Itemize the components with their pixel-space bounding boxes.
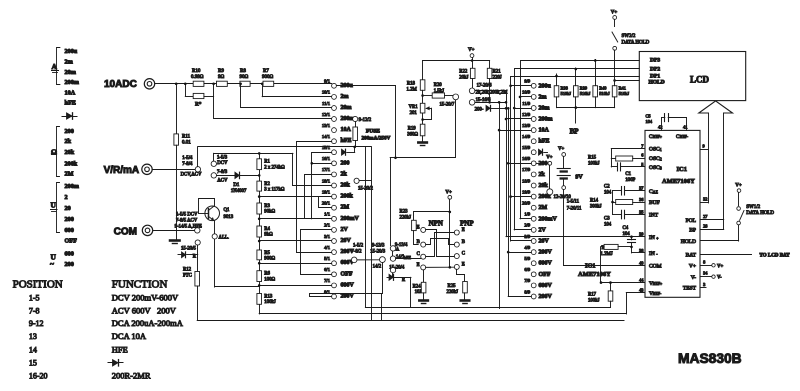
svg-text:2k: 2k [539,172,546,178]
svg-text:AME7106Y: AME7106Y [662,178,695,185]
svg-text:100kJ: 100kJ [588,298,600,303]
svg-text:9-13/3: 9-13/3 [372,243,385,248]
svg-text:R2: R2 [264,182,270,187]
svg-text:2M: 2M [341,205,350,211]
svg-text:R11: R11 [182,135,191,140]
svg-text:R12: R12 [183,268,192,273]
svg-text:13: 13 [29,332,37,341]
svg-text:10J: 10J [415,290,422,295]
svg-text:17/9: 17/9 [522,167,531,172]
svg-text:15-20/5: 15-20/5 [181,246,197,251]
svg-text:R5: R5 [264,251,270,256]
svg-text:42: 42 [658,125,662,130]
svg-text:10/1: 10/1 [322,90,331,95]
svg-text:8: 8 [703,260,706,265]
svg-text:14/2: 14/2 [373,265,382,270]
svg-text:1N4007: 1N4007 [231,189,247,194]
svg-text:OFF: OFF [539,272,551,278]
svg-text:20: 20 [65,205,71,212]
svg-text:200u: 200u [65,48,78,55]
svg-text:36: 36 [639,197,644,202]
svg-text:510kJ: 510kJ [561,91,572,96]
svg-text:R21: R21 [493,70,502,75]
svg-text:R13: R13 [264,294,273,299]
svg-text:4/1: 4/1 [324,245,331,250]
svg-text:200V: 200V [539,250,553,256]
svg-text:E: E [462,262,465,267]
svg-text:DATA HOLD: DATA HOLD [746,211,774,216]
svg-text:ALL.: ALL. [219,235,230,240]
svg-text:1/1: 1/1 [324,212,331,217]
svg-text:VR1: VR1 [409,105,419,110]
svg-text:PTC: PTC [183,274,192,279]
svg-text:BP: BP [689,228,696,234]
svg-text:100kJ: 100kJ [264,300,276,305]
svg-text:R3: R3 [264,204,270,209]
svg-text:9: 9 [703,144,706,149]
svg-text:2M: 2M [539,205,548,211]
svg-text:Ω: Ω [51,148,57,157]
svg-text:R9: R9 [218,69,224,74]
svg-text:100kJ: 100kJ [588,161,600,166]
svg-text:2k: 2k [65,138,72,145]
svg-text:2m: 2m [539,94,547,100]
svg-text:DATA HOLD: DATA HOLD [622,41,650,46]
svg-text:200m: 200m [65,79,80,86]
svg-text:104: 104 [623,232,631,237]
svg-text:2V: 2V [341,227,349,233]
svg-text:200: 200 [341,160,350,166]
svg-text:220kJ: 220kJ [447,290,459,295]
svg-text:1-5/4: 1-5/4 [182,156,193,161]
svg-text:1.2MJ: 1.2MJ [601,252,613,257]
svg-text:20V: 20V [341,238,352,244]
svg-text:+: + [656,235,659,240]
svg-text:20k: 20k [65,149,75,156]
svg-text:12/9: 12/9 [522,112,531,117]
svg-text:1.2M: 1.2M [407,88,418,93]
svg-text:9013: 9013 [224,215,234,220]
svg-text:14: 14 [29,345,37,354]
svg-text:200u: 200u [539,83,552,89]
svg-text:15/9: 15/9 [522,145,531,150]
svg-text:COM: COM [649,264,662,270]
svg-text:2 x 274kΩ: 2 x 274kΩ [264,165,285,170]
svg-text:15-20/7: 15-20/7 [440,102,456,107]
svg-text:200m: 200m [539,117,553,123]
svg-text:MAS830B: MAS830B [678,351,742,366]
svg-text:2m: 2m [65,58,74,65]
svg-text:NPN: NPN [429,220,443,228]
svg-text:20m: 20m [539,106,550,112]
svg-text:V/R/mA: V/R/mA [104,165,140,176]
svg-text:5/1: 5/1 [324,256,331,261]
svg-text:7-8: 7-8 [29,307,40,316]
svg-text:OFF: OFF [341,271,353,277]
svg-text:44: 44 [639,278,644,283]
svg-text:POSITION: POSITION [13,278,63,290]
svg-text:200V: 200V [341,294,355,300]
svg-text:PNP: PNP [460,220,474,228]
svg-text:7-8/5 ACV: 7-8/5 ACV [176,219,198,224]
svg-text:27: 27 [703,214,708,219]
svg-text:3/1: 3/1 [324,234,331,239]
svg-text:INT: INT [649,213,659,219]
svg-text:V+: V+ [735,183,742,188]
svg-text:10/9: 10/9 [522,90,531,95]
svg-text:2/1: 2/1 [324,223,331,228]
svg-text:0.01: 0.01 [182,141,191,146]
svg-text:20m: 20m [341,105,352,111]
svg-text:200mA/250V: 200mA/250V [362,135,391,141]
svg-text:510kJ: 510kJ [619,91,630,96]
svg-text:1-5/2: 1-5/2 [353,243,364,248]
svg-text:C: C [462,252,465,257]
svg-text:20k: 20k [341,183,351,189]
svg-text:OSC: OSC [649,165,660,171]
svg-text:9-12: 9-12 [29,319,44,328]
svg-text:R: R [193,254,197,259]
svg-text:2M: 2M [65,171,74,178]
svg-text:220J: 220J [493,76,502,81]
svg-text:100Ω: 100Ω [264,277,275,282]
svg-text:BP: BP [570,128,580,136]
svg-text:1: 1 [660,147,662,152]
svg-text:V+: V+ [558,147,564,152]
svg-text:SW1/2: SW1/2 [746,205,760,210]
svg-text:BUF: BUF [649,200,660,206]
svg-text:POL: POL [686,218,697,224]
svg-text:9Ω: 9Ω [218,75,225,80]
svg-text:43: 43 [639,288,644,293]
svg-text:8/9: 8/9 [524,289,531,294]
svg-text:TO LCD BAT: TO LCD BAT [760,253,791,258]
svg-text:600V: 600V [539,261,553,267]
svg-text:E: E [417,263,420,268]
svg-text:FUNCTION: FUNCTION [112,278,168,290]
svg-text:V-: V- [691,275,696,281]
svg-text:200m: 200m [65,183,80,190]
svg-text:2/9: 2/9 [524,223,531,228]
svg-text:9/1: 9/1 [324,79,331,84]
svg-text:R8: R8 [240,69,246,74]
svg-text:1-5/11: 1-5/11 [567,199,580,204]
svg-text:DCV 200mV-600V: DCV 200mV-600V [112,293,179,303]
svg-text:360Ω: 360Ω [407,133,418,138]
svg-text:6/9: 6/9 [524,267,531,272]
svg-text:C1: C1 [625,172,631,177]
svg-text:9-12/2: 9-12/2 [359,118,372,123]
svg-text:V+: V+ [468,48,475,53]
svg-text:R19: R19 [408,127,417,132]
svg-text:R23: R23 [400,210,409,215]
svg-text:R39: R39 [580,86,588,91]
svg-text:20m: 20m [65,69,77,76]
svg-text:32: 32 [703,197,707,202]
svg-text:90Ω: 90Ω [240,75,249,80]
svg-text:REF-: REF- [680,135,689,139]
svg-text:R6: R6 [264,272,270,277]
svg-text:C3: C3 [604,217,610,222]
svg-text:17/1: 17/1 [322,167,331,172]
svg-text:R40: R40 [599,86,607,91]
svg-text:C4: C4 [623,226,629,231]
svg-text:7-20/11: 7-20/11 [567,206,582,211]
svg-text:COM: COM [114,226,137,237]
svg-text:9-14/5 A,HFE: 9-14/5 A,HFE [175,225,202,230]
svg-text:R22: R22 [459,70,468,75]
svg-text:14/9: 14/9 [522,134,531,139]
svg-text:4/9: 4/9 [524,245,531,250]
svg-text:E: E [462,228,465,233]
svg-text:18/9: 18/9 [522,178,531,183]
svg-text:3: 3 [703,282,706,287]
svg-text:1-5/3: 1-5/3 [217,155,228,160]
svg-text:39: 39 [639,232,644,237]
svg-text:ACV 600V 200V: ACV 600V 200V [112,306,177,316]
svg-text:V+: V+ [717,264,723,269]
svg-text:V+: V+ [445,190,452,195]
svg-text:34: 34 [703,271,708,276]
svg-text:R18: R18 [407,82,416,87]
svg-text:6/1: 6/1 [324,267,331,272]
svg-text:OFF: OFF [65,238,78,245]
svg-text:HOLD: HOLD [681,239,696,245]
svg-text:104: 104 [604,222,612,227]
svg-text:R4: R4 [264,227,270,232]
svg-text:200mV: 200mV [341,216,360,222]
svg-text:AME7106Y: AME7106Y [578,271,611,278]
svg-text:R20: R20 [434,83,443,88]
svg-text:600: 600 [65,251,74,258]
svg-text:2: 2 [660,156,662,161]
svg-text:~: ~ [50,260,54,269]
svg-text:OSC: OSC [649,147,660,153]
svg-text:7-8/3: 7-8/3 [217,170,228,175]
svg-text:20V: 20V [539,239,550,245]
svg-text:18/1: 18/1 [322,178,331,183]
svg-text:B: B [417,240,420,245]
svg-text:9V: 9V [575,175,583,181]
svg-text:TEST: TEST [683,286,697,292]
svg-text:19/1: 19/1 [322,189,331,194]
svg-text:LCD: LCD [690,75,710,85]
svg-text:B: B [462,240,465,245]
svg-text:OSC: OSC [649,156,660,162]
svg-text:7/1: 7/1 [324,278,331,283]
svg-text:200V: 200V [539,294,553,300]
svg-text:D1: D1 [233,183,239,188]
svg-text:200: 200 [65,261,74,268]
svg-text:15/1: 15/1 [322,145,331,150]
svg-text:20kJ: 20kJ [459,76,468,81]
svg-text:AZ: AZ [653,189,659,194]
svg-text:V+: V+ [689,264,696,270]
svg-text:200mV: 200mV [539,216,558,222]
svg-text:7: 7 [641,144,644,149]
svg-text:10A: 10A [539,128,550,134]
svg-text:V+: V+ [611,11,618,16]
svg-text:DP3: DP3 [650,57,660,63]
svg-text:DCA 10A: DCA 10A [112,331,147,341]
svg-text:200R-2MR: 200R-2MR [112,371,151,381]
svg-text:hFE: hFE [65,100,76,107]
svg-text:9/9: 9/9 [524,79,531,84]
svg-text:40: 40 [639,261,644,266]
svg-text:2m: 2m [341,94,349,100]
svg-text:DP2: DP2 [650,66,660,72]
svg-text:BAT: BAT [686,253,697,259]
svg-text:HOLD: HOLD [649,80,665,86]
svg-text:900Ω: 900Ω [264,257,275,262]
svg-text:16-20: 16-20 [29,372,48,381]
svg-text:104: 104 [646,119,653,124]
svg-text:7-8/4: 7-8/4 [182,162,193,167]
svg-text:15-20/3: 15-20/3 [370,250,386,255]
svg-text:12/1: 12/1 [322,112,331,117]
svg-text:37: 37 [639,186,644,191]
svg-text:7/9: 7/9 [524,278,531,283]
svg-text:200k: 200k [65,160,78,167]
svg-text:Q1: Q1 [224,208,230,213]
svg-text:R15: R15 [588,156,597,161]
svg-text:220kJ: 220kJ [400,216,412,221]
svg-text:R*: R* [195,102,202,108]
svg-text:IN: IN [649,235,655,241]
svg-text:REF-: REF- [653,291,662,296]
svg-text:16/9: 16/9 [522,156,531,161]
svg-text:REF+: REF+ [653,135,662,139]
svg-text:IC1: IC1 [585,263,595,270]
svg-text:V-: V- [717,276,722,281]
svg-text:6: 6 [641,153,644,158]
svg-text:C: C [417,252,420,257]
svg-text:10A: 10A [341,127,352,133]
svg-text:C2: C2 [604,185,610,190]
svg-text:R7: R7 [263,69,269,74]
svg-text:200: 200 [65,128,74,135]
svg-text:R14: R14 [590,199,599,204]
svg-text:201: 201 [410,111,418,116]
svg-text:15: 15 [29,359,37,368]
svg-text:9kΩ: 9kΩ [264,233,273,238]
svg-text:hFE: hFE [404,255,411,260]
svg-text:200: 200 [65,216,74,223]
svg-text:REF+: REF+ [653,281,663,286]
svg-text:1-5/5 DCV: 1-5/5 DCV [176,212,198,217]
svg-text:16/1: 16/1 [322,156,331,161]
svg-text:0.99Ω: 0.99Ω [191,75,204,80]
svg-text:28: 28 [703,224,708,229]
svg-text:510kJ: 510kJ [580,91,591,96]
svg-text:hFE: hFE [341,138,352,144]
svg-text:SW2/2: SW2/2 [622,34,636,39]
svg-text:104: 104 [604,190,612,195]
svg-text:R25: R25 [448,284,457,289]
svg-text:13/9: 13/9 [522,123,531,128]
svg-text:3 x 117kΩ: 3 x 117kΩ [264,188,285,193]
svg-text:11/1: 11/1 [322,101,331,106]
svg-text:R41: R41 [619,86,626,91]
svg-text:ACV: ACV [217,178,228,183]
svg-text:R: R [402,278,406,283]
svg-text:3: 3 [660,166,662,171]
svg-text:1-5: 1-5 [29,294,40,303]
svg-text:2: 2 [65,194,68,201]
svg-text:A: A [396,247,400,252]
svg-text:R24: R24 [413,285,422,290]
svg-text:200-: 200- [475,108,484,113]
svg-text:DCA 200uA-200mA: DCA 200uA-200mA [112,318,184,328]
svg-text:IC1: IC1 [677,166,687,173]
svg-text:V+: V+ [546,156,552,161]
svg-text:DCV: DCV [217,161,228,166]
svg-text:DP1: DP1 [650,73,660,79]
svg-text:-: - [656,252,658,257]
svg-text:100P: 100P [625,178,635,183]
svg-text:E: E [417,225,420,230]
svg-text:19/9: 19/9 [522,189,531,194]
svg-text:5/9: 5/9 [524,256,531,261]
svg-text:1/9: 1/9 [524,212,531,217]
svg-text:HFE: HFE [112,344,128,354]
svg-text:2k: 2k [341,171,348,177]
svg-text:20/1: 20/1 [322,201,331,206]
svg-text:300kJ: 300kJ [590,204,602,209]
svg-text:FUSE: FUSE [366,129,380,135]
svg-text:510kJ: 510kJ [599,91,610,96]
svg-text:R17: R17 [588,293,597,298]
svg-text:11/9: 11/9 [522,101,531,106]
svg-text:A: A [52,62,58,71]
svg-text:600V: 600V [539,283,553,289]
svg-text:35: 35 [639,210,644,215]
svg-text:C5: C5 [646,114,652,119]
svg-text:600V: 600V [341,282,355,288]
svg-text:R10: R10 [192,69,201,74]
svg-text:10ADC: 10ADC [104,79,137,90]
svg-text:R1: R1 [264,160,270,165]
svg-text:R38: R38 [561,86,569,91]
svg-text:600: 600 [65,227,74,234]
svg-text:2V: 2V [539,227,547,233]
svg-text:7-8/2: 7-8/2 [351,250,362,255]
svg-text:2k,20k,200k,2M: 2k,20k,200k,2M [476,90,509,95]
svg-text:20/9: 20/9 [522,201,531,206]
svg-text:90kΩ: 90kΩ [264,210,275,215]
svg-text:DCV,ACV: DCV,ACV [181,173,202,178]
svg-text:20k: 20k [539,183,549,189]
svg-text:200k: 200k [341,194,354,200]
svg-text:14/1: 14/1 [322,134,331,139]
svg-text:41: 41 [683,125,687,130]
svg-text:10A: 10A [65,90,76,97]
svg-text:IN: IN [649,251,655,257]
svg-text:900Ω: 900Ω [262,75,274,80]
svg-text:U: U [51,201,57,210]
svg-text:13/1: 13/1 [322,123,331,128]
svg-text:hFE: hFE [539,139,550,145]
